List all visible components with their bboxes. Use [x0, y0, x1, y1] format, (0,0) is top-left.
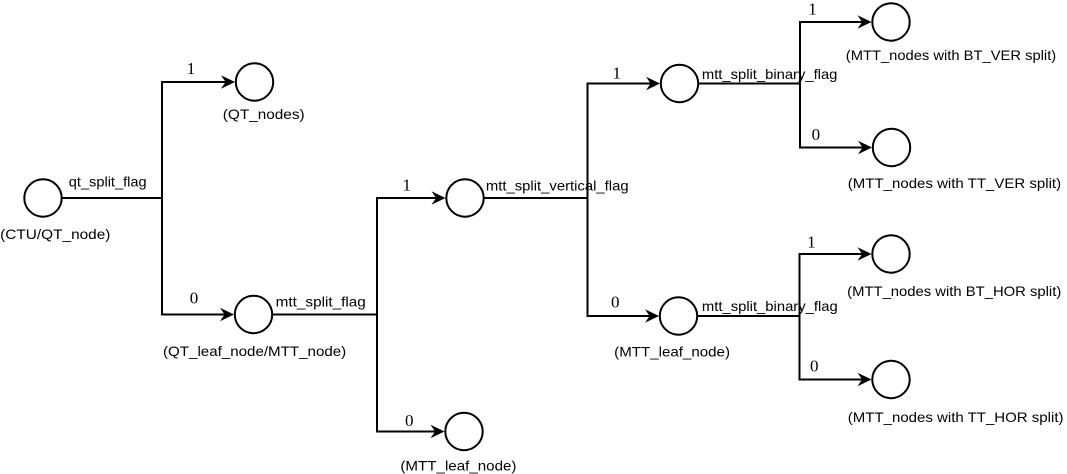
arrowhead to N7 — [858, 141, 872, 155]
arrowhead to N10 — [431, 425, 445, 439]
svg-text:(QT_leaf_node/MTT_node): (QT_leaf_node/MTT_node) — [163, 343, 346, 359]
arrowhead to N9 — [858, 373, 872, 387]
wire branch V2 mtt_split — [377, 198, 437, 432]
wire binary top stub — [699, 83, 802, 85]
node N9 TT_HOR — [872, 361, 909, 398]
node N4 binary decision top — [661, 65, 698, 102]
svg-text:0: 0 — [810, 356, 819, 375]
svg-text:mtt_split_binary_flag: mtt_split_binary_flag — [702, 298, 838, 314]
arrowhead to N3 — [432, 191, 446, 205]
svg-text:mtt_split_binary_flag: mtt_split_binary_flag — [702, 66, 838, 82]
node N0 (CTU/QT_node) — [24, 179, 61, 216]
arrowhead to N8 — [858, 247, 872, 261]
node N1 (QT_nodes) — [236, 63, 273, 100]
svg-text:0: 0 — [611, 292, 620, 311]
wire branch V4 binary top — [800, 22, 863, 148]
node N8 BT_HOR — [872, 235, 909, 272]
wire vertical stub — [484, 197, 589, 199]
svg-text:(MTT_leaf_node): (MTT_leaf_node) — [400, 458, 516, 474]
svg-text:0: 0 — [405, 411, 414, 430]
arrowhead to N2 — [220, 308, 234, 322]
wire mtt_split stub — [273, 314, 379, 316]
svg-text:(MTT_nodes with TT_HOR split): (MTT_nodes with TT_HOR split) — [848, 409, 1064, 425]
svg-text:(MTT_nodes with TT_VER split): (MTT_nodes with TT_VER split) — [848, 175, 1061, 191]
svg-text:mtt_split_vertical_flag: mtt_split_vertical_flag — [486, 178, 629, 194]
svg-text:(MTT_nodes with BT_HOR split): (MTT_nodes with BT_HOR split) — [847, 283, 1061, 299]
node N3 mtt_split_vertical decision — [446, 179, 483, 216]
svg-text:(QT_nodes): (QT_nodes) — [223, 106, 305, 122]
arrowhead to N4 — [646, 77, 660, 91]
svg-text:1: 1 — [613, 64, 622, 83]
node N10 (MTT_leaf_node) bottom — [445, 413, 482, 450]
node N5 (MTT_leaf_node) right — [660, 297, 697, 334]
svg-text:(CTU/QT_node): (CTU/QT_node) — [0, 226, 110, 242]
node N7 TT_VER — [873, 129, 910, 166]
svg-text:1: 1 — [403, 176, 412, 195]
node N2 (QT_leaf_node/MTT_node) — [235, 296, 272, 333]
wire root stub — [62, 197, 163, 199]
svg-text:1: 1 — [807, 233, 816, 252]
wire branch V5 binary bottom — [800, 254, 864, 380]
svg-text:mtt_split_flag: mtt_split_flag — [276, 294, 366, 310]
svg-text:1: 1 — [187, 59, 196, 78]
svg-text:1: 1 — [808, 0, 817, 19]
arrowhead to N1 — [221, 75, 235, 89]
arrowhead to N5 — [645, 309, 659, 323]
svg-text:(MTT_nodes with BT_VER split): (MTT_nodes with BT_VER split) — [846, 47, 1056, 63]
wire binary bottom stub — [698, 315, 801, 317]
node N6 BT_VER — [872, 3, 909, 40]
arrowhead to N6 — [858, 15, 872, 29]
wire branch V1 qt_split — [162, 82, 227, 315]
wire branch V3 mtt_split_vertical — [588, 84, 653, 317]
svg-text:qt_split_flag: qt_split_flag — [69, 173, 147, 189]
svg-text:(MTT_leaf_node): (MTT_leaf_node) — [614, 343, 730, 359]
svg-text:0: 0 — [190, 288, 199, 307]
svg-text:0: 0 — [812, 125, 821, 144]
